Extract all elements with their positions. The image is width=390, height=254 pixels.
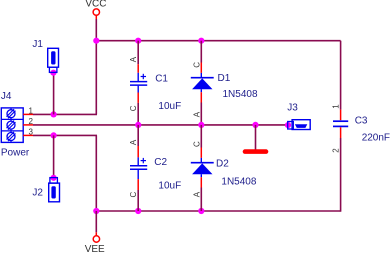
svg-text:A: A (192, 111, 201, 117)
wire D1 top drop (200, 41, 202, 63)
D1 pin A stub (200, 92, 202, 102)
svg-text:A: A (129, 139, 138, 145)
D2 pin A stub (200, 177, 202, 187)
node top rail @ D1 column (198, 38, 204, 44)
wire D2 top (200, 125, 202, 148)
svg-text:1N5408: 1N5408 (221, 177, 256, 188)
capacitor C3 (333, 116, 390, 144)
connector J2 (32, 178, 59, 202)
node row2 @ D column (198, 122, 204, 128)
node bottom rail @ D2 column (198, 208, 204, 214)
svg-text:220nF: 220nF (362, 132, 390, 143)
C3 pin 2 stub (340, 127, 342, 138)
svg-text:C: C (193, 62, 202, 68)
wire row1 pin1 to VCC column (33, 113, 97, 115)
C1 pin A stub (137, 64, 139, 73)
svg-text:A: A (129, 56, 138, 62)
C3 pin 1 stub (340, 110, 342, 121)
svg-text:C: C (193, 141, 202, 147)
svg-text:J2: J2 (32, 188, 43, 199)
C2 pin C stub (137, 179, 139, 190)
J4 pin 2 stub (23, 124, 33, 126)
wire C1 top drop (137, 41, 139, 64)
svg-text:C: C (129, 105, 138, 111)
svg-text:Power: Power (1, 147, 30, 158)
J4 pin 3 stub (23, 134, 33, 136)
wire top rail (96, 40, 341, 42)
wire J2 drop (53, 135, 55, 177)
node top rail @ C1 column (135, 38, 141, 44)
svg-text:2: 2 (332, 148, 341, 153)
wire C2 top (137, 125, 139, 146)
wire VCC vertical (95, 19, 97, 114)
J4 screw terminal pin 3 (7, 131, 16, 143)
connector J4 (1, 91, 30, 158)
svg-text:D2: D2 (216, 158, 229, 169)
wire VEE column vertical (95, 135, 97, 211)
node J3 pin (285, 122, 291, 128)
wire D1 bottom (200, 103, 202, 125)
node row2 @ C column (135, 122, 141, 128)
wire C3 bottom (340, 138, 342, 212)
connector J3 (287, 103, 310, 130)
J4 screw terminal pin 2 (7, 119, 16, 130)
svg-text:A: A (192, 191, 201, 197)
capacitor C2 (130, 157, 181, 191)
ground (245, 149, 266, 154)
capacitor C1 (130, 73, 181, 112)
wire row3 pin3 to VEE column (33, 134, 97, 136)
svg-text:3: 3 (29, 128, 34, 137)
svg-text:VEE: VEE (85, 244, 105, 254)
svg-text:J4: J4 (1, 91, 12, 102)
svg-text:1: 1 (29, 107, 34, 116)
D2 pin C stub (200, 148, 202, 158)
svg-text:10uF: 10uF (158, 101, 181, 112)
wire C2 bottom (137, 190, 139, 211)
svg-text:C: C (129, 192, 138, 198)
C1 pin C stub (137, 93, 139, 103)
wire row2 rail (33, 124, 288, 126)
wire C3 top drop (340, 41, 342, 110)
svg-text:C3: C3 (355, 116, 368, 127)
svg-text:1: 1 (331, 104, 340, 109)
node row1 @ J1 column (51, 111, 57, 117)
J4 screw terminal pin 1 (7, 108, 16, 120)
svg-text:10uF: 10uF (158, 180, 181, 191)
connector J1 (32, 39, 58, 72)
node row3 @ J2 column (51, 132, 57, 138)
supply VEE (85, 232, 105, 254)
C2 pin A stub (137, 146, 139, 157)
J4 pin 1 stub (23, 113, 33, 115)
svg-text:2: 2 (29, 117, 34, 126)
diode D1 (191, 73, 258, 100)
wire D2 bottom (200, 188, 202, 212)
svg-text:1N5408: 1N5408 (223, 89, 258, 100)
svg-text:C2: C2 (154, 157, 167, 168)
wire VEE drop (95, 211, 97, 232)
node J1 pin (50, 70, 56, 76)
node top rail @ VCC column (93, 38, 99, 44)
wire J1 drop (53, 72, 55, 114)
supply VCC (85, 0, 106, 19)
wire C1 bottom (137, 103, 139, 125)
wire bottom rail (96, 210, 341, 212)
svg-text:J1: J1 (32, 39, 43, 50)
diode D2 (191, 158, 257, 188)
node bottom rail @ C2 column (135, 208, 141, 214)
D1 pin C stub (200, 63, 202, 73)
svg-text:VCC: VCC (85, 0, 106, 10)
node bottom rail @ VEE column (93, 208, 99, 214)
svg-text:J3: J3 (287, 103, 298, 114)
node row2 @ ground stub (252, 122, 258, 128)
wire ground stub (255, 125, 257, 150)
svg-text:D1: D1 (218, 73, 231, 84)
svg-text:C1: C1 (155, 74, 168, 85)
node J2 pin (51, 175, 57, 181)
